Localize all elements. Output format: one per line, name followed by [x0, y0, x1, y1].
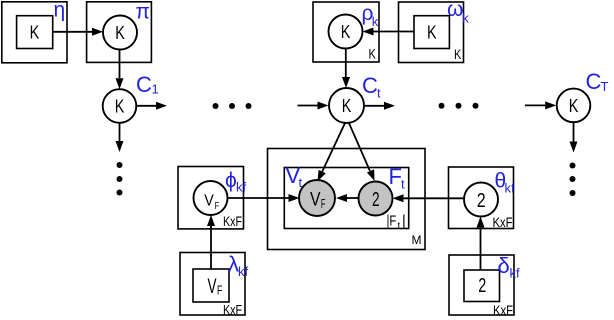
node dots horizontal right — [439, 103, 479, 109]
svg-text:KxF: KxF — [493, 303, 513, 318]
svg-text:k: k — [372, 14, 379, 29]
plate lambda — [180, 253, 245, 316]
label delta_kf — [498, 253, 521, 281]
label rho_k — [362, 2, 379, 29]
svg-text:T: T — [601, 79, 609, 94]
circle node K (pi) — [103, 16, 137, 50]
svg-text:2: 2 — [372, 189, 380, 211]
node dots vertical left — [117, 162, 123, 196]
svg-text:t: t — [377, 86, 381, 101]
svg-text:C: C — [362, 73, 378, 98]
circle node 2 observed (gray) — [359, 182, 393, 216]
svg-text:K: K — [115, 97, 125, 117]
wire pi to C1 — [116, 49, 124, 89]
plate phi — [178, 167, 244, 229]
svg-text:kf: kf — [510, 266, 521, 281]
svg-text:KxF: KxF — [493, 215, 513, 230]
plate label KxF (phi plate) — [223, 214, 242, 229]
label pi — [136, 1, 151, 24]
svg-text:V: V — [310, 189, 321, 211]
svg-text:K: K — [30, 23, 40, 43]
wire 2 to VF (within plate) — [336, 194, 359, 202]
wire theta to 2 observed — [393, 194, 465, 202]
wire C1 down — [116, 123, 124, 152]
label lambda_kf — [228, 252, 249, 280]
label Vt — [286, 163, 303, 190]
plate omega — [399, 2, 464, 63]
svg-text:t: t — [401, 177, 405, 192]
svg-text:K: K — [454, 47, 461, 62]
square node K (omega prior) — [414, 16, 449, 49]
wire into Ct from left — [298, 102, 329, 110]
svg-text:δ: δ — [498, 253, 510, 278]
wire Ct to VF observed (diagonal left) — [318, 122, 346, 182]
label omega_k — [447, 0, 469, 26]
plate label K (rho plate) — [369, 47, 376, 62]
wire Ct to 2 observed (diagonal right) — [349, 122, 375, 181]
svg-text:t: t — [299, 175, 303, 190]
plate label KxF (delta plate) — [493, 303, 513, 318]
wire into CT from left — [525, 101, 556, 109]
plate label |Ft| — [387, 214, 406, 233]
svg-text:2: 2 — [477, 190, 486, 212]
svg-text:C: C — [136, 72, 152, 97]
square node 2 (delta prior) — [464, 270, 500, 302]
svg-text:ϕ: ϕ — [225, 169, 237, 192]
wire omega to rho — [363, 28, 415, 36]
plate theta — [449, 167, 514, 229]
svg-text:k: k — [462, 11, 469, 26]
plate pi — [87, 2, 152, 63]
label theta_kf — [495, 170, 516, 196]
circle node K (rho) — [329, 15, 363, 49]
circle node VF (phi) — [194, 181, 228, 215]
svg-text:kf: kf — [505, 181, 516, 196]
plate eta — [2, 2, 67, 63]
label phi_kf — [225, 169, 247, 195]
plate M — [268, 149, 426, 250]
svg-text:V: V — [204, 193, 214, 210]
svg-text:|F: |F — [387, 214, 397, 230]
svg-text:F: F — [215, 200, 220, 212]
svg-text:K: K — [115, 23, 125, 43]
plate |Ft| — [284, 168, 408, 229]
label Ft — [389, 164, 406, 192]
svg-text:η: η — [54, 0, 66, 22]
wire lambda to phi — [207, 215, 215, 269]
wire delta to theta — [477, 217, 485, 271]
svg-text:π: π — [136, 1, 151, 24]
circle node VF observed (gray) — [299, 180, 335, 216]
svg-text:KxF: KxF — [223, 303, 242, 318]
svg-text:V: V — [208, 275, 217, 298]
svg-text:K: K — [427, 22, 437, 42]
svg-text:F: F — [217, 283, 222, 298]
wire Ct right — [364, 102, 395, 110]
wire eta to pi — [53, 28, 103, 36]
svg-text:|: | — [402, 214, 406, 230]
svg-text:F: F — [321, 197, 326, 211]
wire C1 right — [137, 102, 167, 110]
svg-text:ω: ω — [447, 0, 463, 21]
svg-text:K: K — [569, 96, 579, 116]
label Ct — [362, 73, 381, 101]
circle node K (Ct) — [329, 88, 364, 123]
svg-text:F: F — [389, 164, 402, 189]
svg-text:K: K — [342, 96, 352, 116]
label C1 — [136, 72, 159, 97]
plate rho — [313, 2, 379, 62]
label CT — [586, 69, 609, 94]
svg-text:kf: kf — [238, 264, 249, 279]
square node K (eta prior) — [17, 16, 53, 49]
circle node 2 (theta) — [464, 183, 498, 217]
svg-text:K: K — [341, 22, 351, 42]
wire rho to Ct — [342, 49, 350, 89]
circle node K (CT) — [557, 89, 591, 123]
plate delta — [449, 255, 514, 315]
node dots vertical right — [570, 163, 576, 197]
svg-text:t: t — [398, 221, 401, 232]
plate label K (omega plate) — [454, 47, 461, 62]
svg-text:K: K — [369, 47, 376, 62]
svg-text:C: C — [586, 69, 602, 94]
svg-text:1: 1 — [152, 82, 159, 97]
label eta — [54, 0, 66, 22]
svg-text:kf: kf — [236, 180, 247, 195]
wire CT down — [570, 122, 578, 152]
svg-text:KxF: KxF — [223, 214, 242, 229]
plate label KxF (lambda plate) — [223, 303, 242, 318]
square node VF (lambda prior) — [193, 269, 229, 302]
circle node K (C1) — [103, 89, 137, 123]
node dots horizontal left — [213, 103, 252, 109]
wire phi to VF observed — [228, 194, 300, 202]
plate label KxF (theta plate) — [493, 215, 513, 230]
svg-text:2: 2 — [478, 275, 486, 297]
plate label M — [412, 233, 422, 247]
svg-text:M: M — [412, 233, 422, 247]
